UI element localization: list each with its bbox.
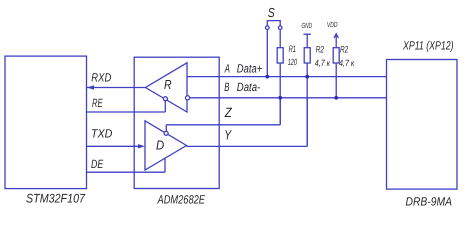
svg-text:Y: Y — [224, 128, 232, 143]
wire Z — [166, 98, 280, 131]
connector block XP11 (XP12) — [387, 60, 458, 190]
MCU block STM32F107 — [5, 56, 87, 189]
bubble RE on R — [163, 97, 167, 101]
bubble B input on R — [186, 96, 190, 100]
wire TXD — [87, 126, 146, 148]
svg-text:4,7 к: 4,7 к — [339, 58, 355, 68]
wire RXD — [87, 70, 146, 90]
svg-text:S: S — [268, 5, 275, 20]
svg-text:Data+: Data+ — [237, 62, 262, 76]
wire Y — [187, 98, 308, 147]
ground GND — [302, 21, 313, 48]
junction VDD-column on Data- — [334, 96, 338, 100]
svg-text:VDD: VDD — [327, 20, 338, 29]
junction R1-column on Data- — [278, 96, 282, 100]
wire DE — [87, 157, 166, 172]
wire R2b bottom column — [335, 63, 337, 98]
wire R1 bottom column — [279, 63, 281, 125]
svg-text:R1: R1 — [289, 44, 296, 55]
power VDD — [327, 20, 339, 48]
svg-text:XP11 (XP12): XP11 (XP12) — [402, 39, 453, 53]
svg-text:DE: DE — [91, 157, 104, 171]
bubble Z on D — [164, 131, 168, 135]
switch S — [266, 5, 283, 30]
wire RE — [87, 96, 166, 112]
svg-text:Data-: Data- — [237, 80, 260, 94]
junction switch-leg on Data+ — [265, 75, 269, 79]
svg-text:RE: RE — [92, 96, 103, 110]
op-amp driver D — [145, 121, 187, 170]
wire B Data- — [190, 80, 387, 98]
wire switch left leg — [266, 30, 268, 77]
svg-text:D: D — [156, 137, 164, 152]
svg-text:GND: GND — [302, 21, 313, 30]
svg-text:R2: R2 — [340, 44, 349, 55]
resistor R2 (pull to VDD) — [333, 44, 355, 68]
svg-text:Z: Z — [224, 105, 232, 120]
svg-text:120: 120 — [288, 57, 297, 67]
svg-text:STM32F107: STM32F107 — [26, 192, 86, 206]
wire A Data+ — [187, 62, 387, 77]
svg-text:A: A — [224, 62, 230, 76]
svg-text:RXD: RXD — [91, 70, 111, 84]
svg-text:DRB-9MA: DRB-9MA — [406, 194, 453, 208]
transceiver block ADM2682E — [134, 57, 219, 188]
junction GND-column on Data+ — [305, 75, 309, 79]
resistor R1 — [277, 44, 297, 67]
op-amp receiver R — [146, 63, 188, 112]
svg-text:R: R — [164, 77, 172, 92]
resistor R2 (pull to GND) — [304, 44, 330, 68]
svg-text:ADM2682E: ADM2682E — [157, 192, 206, 206]
wire switch right leg — [279, 30, 281, 48]
svg-text:TXD: TXD — [91, 126, 113, 140]
wire R2 bottom column — [306, 63, 308, 146]
svg-text:4,7 к: 4,7 к — [315, 58, 331, 68]
svg-text:R2: R2 — [316, 44, 325, 55]
svg-text:B: B — [224, 80, 229, 94]
